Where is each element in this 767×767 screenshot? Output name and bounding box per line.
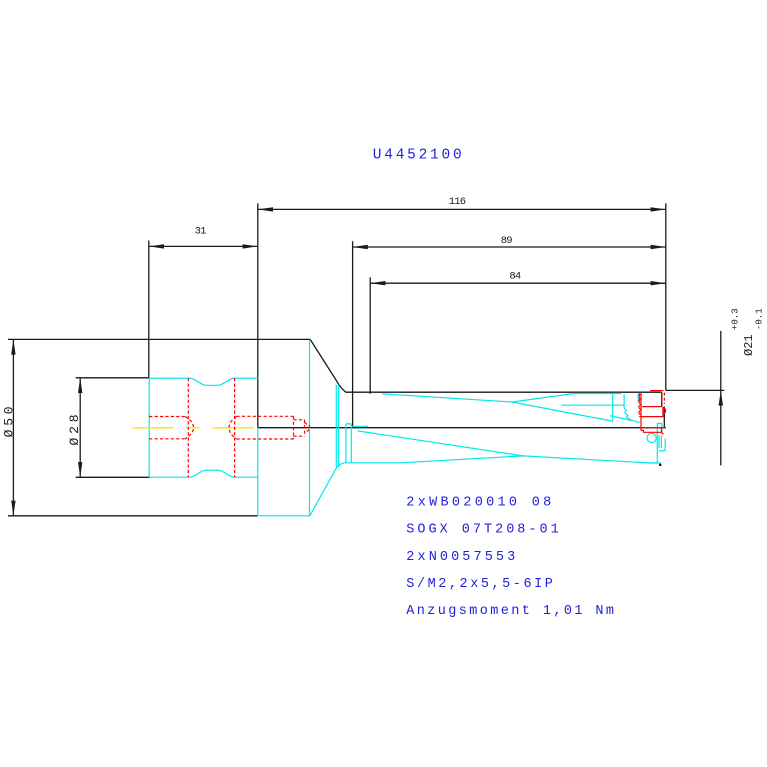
screw head top [294,419,305,421]
dimension 116 extension line left / flange left face [257,203,259,427]
lower pocket corner diagonal [662,432,664,434]
cone throat vertical 1 [335,385,337,467]
core step vertical 1 [345,424,347,463]
tip face upper black [661,392,663,406]
drill top edge black [346,391,662,393]
dimension 116 line [258,208,666,210]
arrow 89 left [353,245,368,249]
gash slant [610,416,632,421]
screw body face [293,416,295,439]
svg-text:Anzugsmoment 1,01 Nm: Anzugsmoment 1,01 Nm [406,604,616,619]
pilot fragment vertical [637,393,639,402]
cone throat vertical 2 [338,385,340,467]
upper insert bottom [639,416,663,418]
arrow 116 right [651,207,666,211]
groove hidden vertical left [187,378,189,477]
pocket centerline red [640,427,665,429]
svg-text:84: 84 [509,271,521,283]
pocket wall vertical 1 [612,394,614,421]
flute upper diagonal descending [382,394,614,422]
svg-text:+0.3: +0.3 [731,308,741,330]
core step vertical 2 [350,424,352,463]
core step ledge [351,425,368,427]
screw body top [237,415,294,417]
arrowheads [11,207,723,516]
dimension 84 extension line left [369,277,371,393]
groove hidden vertical right [234,378,236,477]
screw head bottom [294,435,305,437]
dimension 84 line [370,282,666,284]
cyan tool body [149,341,665,516]
insert serrated left edge [640,393,642,430]
insert screw below center v1 [658,436,660,449]
coolant bore top hidden line [149,416,185,418]
flute horizontal mid line [561,404,624,406]
shank left face [148,378,150,477]
arrow 89 right [651,245,666,249]
arrow 116 left [258,207,273,211]
arrow 31 right [243,244,258,248]
flange bottom edge [258,515,310,517]
coolant bore bottom hidden line [149,438,185,440]
dimension D50 line [12,339,14,515]
flange right face [309,341,311,516]
flute silhouette ascending lower [401,456,523,463]
dimension D50 extension bottom [8,515,258,517]
insert screw below center cap [659,450,665,452]
coolant bore end arc [185,417,194,439]
dimension D28 extension top [76,377,149,379]
svg-text:89: 89 [501,235,513,247]
dimension text D21 with tolerance rotated [731,308,765,356]
svg-text:U4452100: U4452100 [373,148,465,164]
upper insert corner bump [664,408,666,414]
svg-text:SOGX 07T208-01: SOGX 07T208-01 [406,523,561,538]
screw body bottom [237,438,294,440]
shank top edge with groove wave [149,378,258,385]
dimension 31 extension line left [148,241,150,378]
flange left face lower half [257,428,259,516]
gash zigzag [624,408,639,422]
dimension 89 extension line left [352,241,354,428]
serration scallop 3 [639,405,641,409]
dimension D28 extension bottom [76,476,150,478]
flute upper diagonal ascending [512,394,622,403]
serration scallop 1 [639,394,641,398]
flute lower diagonal [358,431,659,463]
red hidden details [149,378,665,477]
svg-text:Ø50: Ø50 [2,403,17,438]
screw head face [304,420,306,436]
arrow D28 bottom [78,462,82,477]
dimension 31 line [149,245,258,247]
dimension D28 line [79,378,81,478]
cone bottom slant [310,463,345,516]
point mark at drill margin corner [659,464,662,467]
arrow 31 left [149,244,164,248]
svg-text:Ø21: Ø21 [742,334,756,356]
insert top edge red [650,390,663,392]
dimension D21 line [720,331,722,466]
svg-text:-0.1: -0.1 [755,308,765,330]
arrow D50 top [11,339,15,354]
centerline black right part [258,427,666,429]
bottom text block [406,496,616,619]
arrow D28 top [78,378,82,393]
cone top slant black [311,340,347,392]
insert screw below center v2 [660,436,662,449]
upper insert pocket top [642,406,662,408]
insert hidden vertical right [663,393,665,404]
svg-text:Ø28: Ø28 [67,411,82,446]
drill bottom edge [345,462,401,464]
shank bottom edge with groove wave [149,470,258,477]
arrow 84 right [651,281,666,285]
lower pocket outline [641,428,662,433]
svg-text:2xWB020010 08: 2xWB020010 08 [406,496,554,511]
svg-text:2xN0057553: 2xN0057553 [406,550,518,565]
dimension D50 extension top / flange top edge [8,338,311,340]
svg-text:31: 31 [195,226,207,238]
dimension 89 line [353,246,666,248]
tip lower outer vertical [656,423,658,463]
tip lower short vertical [661,424,663,434]
arrow 84 left [370,281,385,285]
serration scallop 4 [639,410,641,414]
core step cap [346,423,351,425]
tip face lower black [663,407,665,429]
svg-text:S/M2,2x5,5-6IP: S/M2,2x5,5-6IP [406,577,555,592]
svg-text:116: 116 [449,196,466,208]
pocket wall vertical 2 [623,394,625,408]
dimension D21 extension top [666,389,725,391]
tip bottom edge [650,462,661,464]
upper insert right face [662,407,664,417]
serration scallop 2 [639,400,641,404]
insert screw below center v3 [664,439,666,451]
arrow D21 top [719,390,723,405]
arrow D50 bottom [11,501,15,516]
coolant hole circle [647,433,656,442]
insert hidden vertical left [639,393,641,401]
screw seat arc [229,417,237,439]
dimension 116 extension line right [665,203,667,390]
yellow centerline [132,427,258,429]
tip lower ledge [657,422,662,424]
screw tip [305,423,310,434]
